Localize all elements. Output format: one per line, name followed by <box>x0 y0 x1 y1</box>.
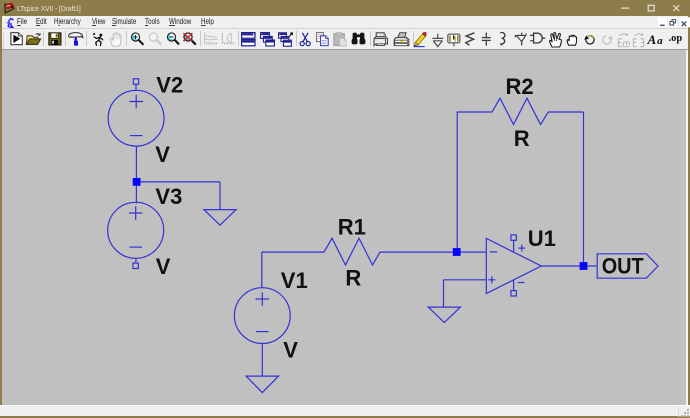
svg-text:V: V <box>155 142 170 167</box>
svg-text:OUT: OUT <box>602 254 644 279</box>
svg-text:V: V <box>156 254 171 279</box>
svg-text:V: V <box>283 338 298 363</box>
svg-text:R: R <box>345 266 361 291</box>
svg-text:R1: R1 <box>338 215 366 240</box>
svg-text:V1: V1 <box>281 268 308 293</box>
svg-text:R2: R2 <box>506 74 534 99</box>
svg-text:V2: V2 <box>156 73 183 98</box>
svg-text:V3: V3 <box>155 184 182 209</box>
svg-text:U1: U1 <box>528 226 556 251</box>
svg-text:R: R <box>514 126 530 151</box>
